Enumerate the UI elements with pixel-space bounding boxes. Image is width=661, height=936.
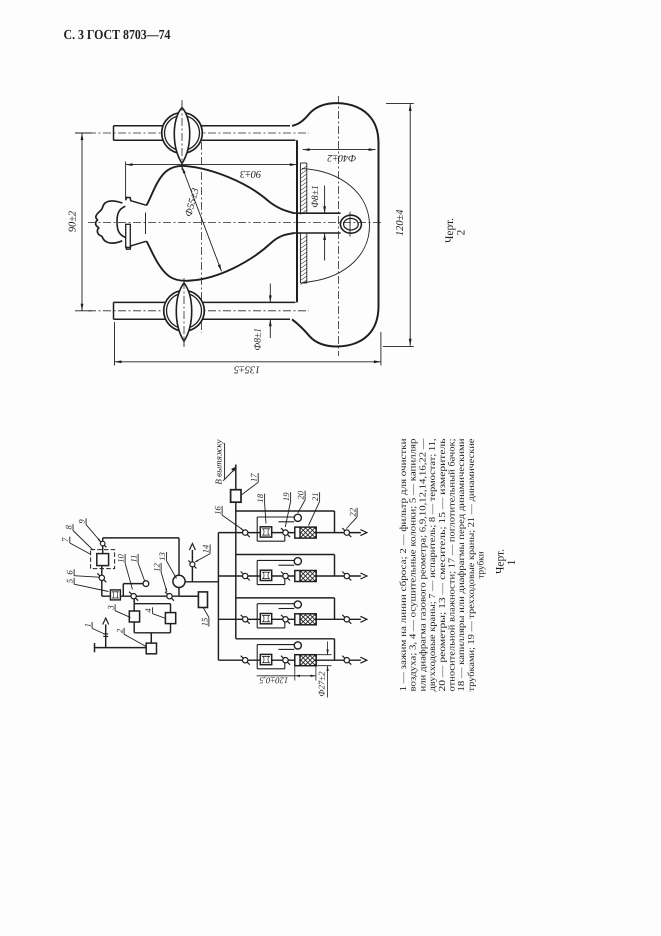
- page header C.3 GOST 8703-74: [64, 27, 171, 42]
- svg-text:120±4: 120±4: [395, 210, 406, 236]
- figure 1 caption: [495, 549, 519, 574]
- mixer 13: [173, 575, 185, 596]
- valve 12: [165, 592, 174, 601]
- label 18: [255, 493, 266, 523]
- vessel left wall: [296, 140, 298, 302]
- svg-text:11: 11: [129, 555, 139, 563]
- wire: wet path top run: [103, 537, 179, 539]
- label 5: [65, 578, 109, 592]
- rheometer 11 tap: [123, 584, 143, 597]
- label 3: [106, 604, 131, 617]
- wire: col3 stubs: [133, 604, 135, 633]
- svg-text:4: 4: [143, 608, 153, 613]
- axis: top tube centerline: [88, 132, 309, 134]
- svg-text:или диафрагма газового реометр: или диафрагма газового реометра; 6,9,10,…: [417, 438, 427, 692]
- svg-text:1 — зажим на линии сброса; 2 —: 1 — зажим на линии сброса; 2 — фильтр дл…: [398, 438, 408, 691]
- vessel (capsule) outer outline: [292, 103, 379, 346]
- dim 90±3 (flask length): [126, 162, 297, 200]
- svg-text:21: 21: [310, 493, 320, 502]
- label 12: [152, 563, 168, 593]
- evaporator box 7: [97, 554, 109, 566]
- dim 120±4 (vessel height): [383, 103, 414, 346]
- label 17: [242, 473, 259, 495]
- drying column 3: [129, 611, 139, 622]
- label 2: [115, 628, 146, 647]
- figure 2 caption: [444, 218, 468, 243]
- svg-text:6: 6: [65, 570, 75, 575]
- label 16: [213, 506, 242, 529]
- wire: supply manifold: [217, 533, 219, 661]
- dim 120±0,5 (tube length): [257, 666, 316, 686]
- wire: exhaust line: [235, 465, 237, 490]
- ground glass joint with hatching: [300, 163, 306, 285]
- svg-text:10: 10: [116, 554, 126, 563]
- label 14: [195, 544, 211, 562]
- neck inner mouth line: [145, 213, 147, 235]
- svg-text:5: 5: [65, 578, 75, 583]
- dim 90±2 (left): [68, 133, 93, 311]
- label 9: [77, 518, 101, 541]
- wire: collection manifold: [235, 502, 237, 639]
- flask mouth socket: [126, 197, 147, 249]
- label 13: [157, 552, 177, 579]
- filter box 2: [146, 643, 156, 654]
- label 10: [116, 554, 133, 590]
- wire: wet path down to mixer: [178, 538, 180, 575]
- label 11: [129, 554, 145, 581]
- svg-text:19: 19: [281, 492, 291, 501]
- svg-text:22: 22: [348, 507, 358, 516]
- stopper crown head: [96, 201, 123, 243]
- svg-text:20 — реометры; 13 — смеситель;: 20 — реометры; 13 — смеситель; 15 — изме…: [437, 439, 447, 692]
- axis: bottom stopcock vertical centerline: [183, 278, 185, 348]
- branch 1 (valve, capillary 18, rheometer 20, valve 19, dynamic tube 21, valve 22, outlet): [218, 511, 367, 541]
- valve 6: [97, 573, 106, 582]
- stopper flange bar: [126, 224, 131, 247]
- svg-text:14: 14: [201, 544, 211, 553]
- branch 2 (valve, capillary 18, rheometer 20, valve 19, dynamic tube 21, valve 22, outlet): [218, 555, 367, 585]
- svg-text:трубками; 19 — трехходовые кра: трубками; 19 — трехходовые краны; 21 — д…: [466, 439, 476, 692]
- top side tube: [114, 126, 296, 141]
- wire: line to humidity meter: [179, 595, 198, 597]
- wire: left vertical (to evaporator): [101, 566, 103, 597]
- svg-text:90±3: 90±3: [240, 168, 261, 179]
- svg-text:9: 9: [77, 519, 87, 524]
- flask bulb outline: [147, 166, 295, 281]
- svg-text:относительной влажности; 17 —: относительной влажности; 17 — поглотител…: [447, 439, 457, 692]
- dim Ф55±3 (bulb diameter): [182, 167, 222, 272]
- vessel inner dome wall: [302, 169, 370, 283]
- label 1: [83, 622, 104, 634]
- label 20: [296, 490, 306, 513]
- valve 10: [129, 592, 138, 601]
- svg-text:трубки: трубки: [476, 551, 486, 578]
- svg-text:2: 2: [115, 628, 125, 633]
- dim 135±5 (overall length): [115, 322, 381, 374]
- svg-text:16: 16: [213, 506, 223, 515]
- capillary 5: [110, 590, 120, 600]
- svg-text:Черт.: Черт.: [495, 549, 507, 574]
- drying column 4: [165, 613, 175, 624]
- axis: bottom tube centerline: [88, 310, 309, 312]
- svg-text:12: 12: [152, 563, 162, 572]
- label 6: [65, 569, 100, 577]
- exhaust arrow: [223, 466, 237, 481]
- svg-text:3: 3: [106, 605, 116, 610]
- svg-text:120±0,5: 120±0,5: [259, 675, 289, 685]
- branch 4 (valve, capillary 18, rheometer 20, valve 19, dynamic tube 21, valve 22, outlet): [218, 639, 367, 669]
- label 21: [309, 492, 321, 525]
- neck tip oval: [340, 212, 361, 237]
- text В вытяжку: [213, 439, 224, 484]
- valve 9: [99, 540, 106, 547]
- wire: evaporator top riser: [102, 538, 104, 554]
- absorber box 17: [231, 490, 241, 503]
- stopper dome: [117, 206, 125, 237]
- wire: mixer outlet: [185, 581, 218, 583]
- label 22: [347, 507, 358, 528]
- wire: rail riser to main line: [133, 596, 135, 604]
- svg-text:В вытяжку: В вытяжку: [213, 439, 223, 484]
- wire: col4 stubs: [170, 604, 172, 633]
- label 19: [281, 492, 291, 527]
- label 8: [63, 524, 93, 550]
- svg-text:7: 7: [60, 537, 70, 542]
- svg-text:С. 3 ГОСТ 8703—74: С. 3 ГОСТ 8703—74: [64, 27, 171, 42]
- dim Ф8±1 (neck, upper): [310, 185, 326, 260]
- wire: drying top rail: [134, 603, 170, 605]
- axis: vessel vertical centerline: [338, 96, 340, 356]
- svg-text:Ф8±1: Ф8±1: [310, 185, 321, 208]
- svg-text:90±2: 90±2: [68, 211, 79, 232]
- svg-text:15: 15: [199, 617, 209, 626]
- axis: top stopcock vertical centerline: [181, 100, 183, 170]
- svg-text:Черт.: Черт.: [444, 218, 456, 243]
- wire: inlet terminal: [95, 643, 147, 652]
- label 4: [143, 607, 166, 618]
- svg-text:17: 17: [249, 473, 259, 482]
- bottom side tube: [114, 302, 296, 319]
- figure 1 legend text: [398, 438, 486, 692]
- svg-text:13: 13: [157, 552, 167, 561]
- svg-text:18 — капилляры или диафрагмы п: 18 — капилляры или диафрагмы перед динам…: [456, 438, 466, 691]
- label 7: [60, 537, 91, 555]
- axis: flask horizontal centerline: [88, 222, 382, 224]
- svg-text:Ф8±1: Ф8±1: [252, 328, 263, 351]
- dim Ф40±2 (vessel bore): [303, 148, 376, 163]
- label 15: [199, 608, 209, 627]
- wire: filter to drying rails: [150, 633, 152, 643]
- svg-text:135±5: 135±5: [234, 363, 260, 374]
- bottom stopcock (glass cock): [164, 281, 205, 347]
- clamp 1 ticks: [103, 634, 108, 637]
- valve 14: [188, 560, 196, 568]
- svg-text:2: 2: [456, 229, 468, 235]
- wire: drying bottom rail: [134, 632, 170, 634]
- branch 3 (valve, capillary 18, rheometer 20, valve 19, dynamic tube 21, valve 22, outlet): [218, 598, 367, 628]
- svg-text:20: 20: [296, 490, 306, 499]
- svg-text:1: 1: [83, 623, 93, 627]
- svg-text:1: 1: [506, 559, 518, 565]
- thermostat dashed box 8: [91, 550, 115, 569]
- svg-text:Ф40±2: Ф40±2: [327, 152, 356, 163]
- dim Ф8±1 (neck, lower): [252, 284, 271, 351]
- axis: bulb vertical centerline: [201, 142, 203, 333]
- svg-text:двухходовые краны; 7 — испарит: двухходовые краны; 7 — испаритель; 8 — т…: [427, 438, 437, 691]
- wire: riser to bleed arrow: [105, 624, 107, 647]
- vent arrow (open, up): [189, 544, 195, 551]
- humidity meter box 15: [198, 592, 207, 608]
- bleed arrow (open, up): [103, 618, 109, 625]
- wire: main supply line: [102, 595, 199, 597]
- top stopcock (glass cock): [162, 103, 203, 170]
- dim Ф27±2 (tube diameter): [312, 642, 332, 698]
- svg-text:8: 8: [63, 524, 73, 529]
- rheometer 11 bulb: [143, 581, 149, 587]
- wire: vent riser: [191, 550, 193, 582]
- flask neck tube: [295, 213, 341, 233]
- svg-text:Ф27±2: Ф27±2: [316, 671, 326, 697]
- svg-text:воздуха; 3, 4 — осушительные к: воздуха; 3, 4 — осушительные колонки; 5 …: [408, 438, 418, 691]
- svg-text:18: 18: [255, 493, 265, 502]
